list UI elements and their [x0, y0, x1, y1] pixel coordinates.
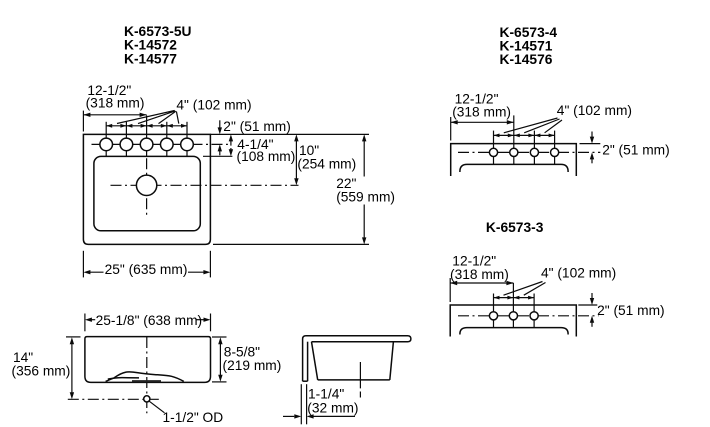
- basin back wall: [390, 342, 394, 380]
- top edge extension line: [210, 133, 369, 135]
- faucet hole stem 3: [533, 294, 535, 329]
- faucet hole stem 5: [186, 122, 188, 157]
- dim 4in gaps line: [494, 297, 535, 299]
- faucet hole stem 2: [513, 115, 515, 164]
- faucet hole 2: [120, 138, 133, 151]
- faucet hole centerline: [458, 151, 600, 153]
- svg-text:25-1/8" (638 mm): 25-1/8" (638 mm): [96, 313, 203, 328]
- svg-text:(32 mm): (32 mm): [307, 401, 358, 416]
- dim 8-5/8 line: [219, 340, 221, 379]
- faucet hole 4: [161, 138, 174, 151]
- drain hole: [136, 175, 156, 195]
- dim 12-1/2 line: [450, 282, 513, 284]
- dim 14in top tick: [66, 336, 81, 338]
- faucet hole stem 4: [166, 122, 168, 157]
- drain mound contour: [106, 372, 184, 382]
- dim 8-5/8 top tick: [212, 336, 227, 338]
- faucet hole stem 1: [105, 122, 107, 157]
- svg-text:(219 mm): (219 mm): [223, 358, 282, 373]
- faucet hole stem 1: [493, 294, 495, 329]
- dim 2in arrow lower: [219, 147, 221, 155]
- faucet hole stem 1: [493, 131, 495, 165]
- dim 2in arrow lower: [591, 319, 593, 327]
- drain mound crease: [108, 378, 139, 380]
- basin front wall: [312, 342, 318, 380]
- svg-text:(254 mm): (254 mm): [297, 156, 356, 171]
- basin inner rect: [94, 156, 200, 230]
- svg-text:K-14576: K-14576: [500, 52, 553, 67]
- top edge extension right: [578, 304, 597, 306]
- dim 2in arrow lower: [591, 155, 593, 163]
- apron inner face: [307, 342, 309, 382]
- outlet centerline horizontal: [68, 398, 162, 400]
- svg-text:K-14577: K-14577: [124, 52, 177, 67]
- faucet hole 1: [489, 312, 497, 320]
- sink top edge: [450, 305, 576, 337]
- svg-text:8-5/8": 8-5/8": [224, 344, 260, 359]
- dim 8-5/8 bottom tick: [212, 381, 227, 383]
- dim 12-1/2 extension left: [82, 111, 84, 132]
- svg-text:2" (51 mm): 2" (51 mm): [597, 303, 665, 318]
- dim 4in gaps line: [494, 134, 555, 136]
- svg-text:K-14572: K-14572: [124, 38, 177, 53]
- dim 25in extension left: [82, 251, 84, 278]
- svg-text:(108 mm): (108 mm): [237, 149, 296, 164]
- faucet hole 2: [509, 312, 517, 320]
- dim 1-1/4 arrow left: [283, 415, 294, 417]
- drain centerline: [359, 362, 361, 398]
- faucet hole 3: [530, 148, 538, 156]
- faucet hole stem 3: [533, 131, 535, 165]
- dim 1-1/4 extension right: [306, 384, 308, 424]
- bottom edge extension line: [213, 243, 369, 245]
- svg-text:1-1/2" OD: 1-1/2" OD: [163, 410, 224, 425]
- dim 25in line left: [86, 271, 103, 273]
- svg-text:K-6573-3: K-6573-3: [486, 220, 544, 235]
- faucet hole stem 2: [125, 122, 127, 157]
- faucet hole 3: [530, 312, 538, 320]
- svg-text:2" (51 mm): 2" (51 mm): [602, 143, 670, 158]
- faucet hole stem 4: [554, 131, 556, 165]
- basin rim partial: [460, 164, 568, 172]
- sink top edge: [451, 144, 577, 176]
- dim 12-1/2 extension left: [450, 117, 452, 141]
- svg-text:25" (635 mm): 25" (635 mm): [105, 262, 188, 277]
- dim 1-1/4 extension left: [300, 384, 302, 424]
- faucet hole 5: [181, 138, 194, 151]
- drain centerline vertical: [146, 337, 148, 413]
- dim 22in line lower: [363, 205, 365, 242]
- dim 25-1/8 line right: [196, 319, 207, 321]
- faucet hole stem 3: [146, 115, 148, 156]
- dim 2in arrow upper: [591, 132, 593, 141]
- svg-text:4" (102 mm): 4" (102 mm): [541, 266, 616, 281]
- dim 25-1/8 extension left: [84, 314, 86, 332]
- svg-text:(318 mm): (318 mm): [452, 105, 511, 120]
- dim 25in extension right: [209, 251, 211, 278]
- dim 4in leader lines: [504, 282, 546, 296]
- drain outlet circle: [144, 396, 150, 402]
- sink outer rim rect: [83, 134, 210, 244]
- dim 12-1/2 line: [83, 114, 146, 116]
- faucet hole 1: [489, 148, 497, 156]
- faucet hole 3: [140, 138, 153, 151]
- faucet hole stem 2: [512, 283, 514, 328]
- dim 14in line: [71, 340, 73, 396]
- dim 4-1/4 line: [230, 137, 232, 153]
- basin rim partial: [460, 328, 568, 335]
- dim 4in leader lines: [504, 118, 562, 133]
- svg-text:(559 mm): (559 mm): [336, 189, 395, 204]
- svg-text:(318 mm): (318 mm): [450, 267, 509, 282]
- dim 4in gaps line: [106, 125, 187, 127]
- svg-text:(318 mm): (318 mm): [86, 96, 145, 111]
- drain bottom line: [132, 380, 161, 382]
- apron bottom: [303, 380, 308, 382]
- dim 2in arrow upper: [219, 120, 221, 131]
- dim 1-1/4 arrow right: [313, 415, 355, 417]
- svg-text:2" (51 mm): 2" (51 mm): [223, 119, 291, 134]
- svg-text:(356 mm): (356 mm): [12, 364, 71, 379]
- dim 4in leader lines: [117, 111, 179, 124]
- dim 25-1/8 line left: [88, 319, 95, 321]
- apron and rim outline: [303, 336, 411, 382]
- top edge extension right: [580, 143, 601, 145]
- dim 22in line upper: [363, 137, 365, 176]
- dim 12-1/2 line: [451, 121, 514, 123]
- dim 10in line: [295, 137, 297, 182]
- faucet hole 2: [510, 148, 518, 156]
- dim 12-1/2 extension left: [449, 278, 451, 302]
- svg-text:4" (102 mm): 4" (102 mm): [557, 103, 632, 118]
- dim 2in arrow upper: [591, 293, 593, 302]
- drain centerline vertical: [146, 158, 148, 216]
- faucet hole centerline: [458, 315, 599, 317]
- faucet hole 1: [100, 138, 113, 151]
- faucet hole 4: [551, 148, 559, 156]
- svg-text:1-1/4": 1-1/4": [308, 387, 344, 402]
- front outline: [85, 337, 211, 383]
- basin bottom: [318, 379, 390, 381]
- drain centerline horizontal: [111, 184, 299, 186]
- basin rim extension line: [203, 155, 232, 157]
- dim 25-1/8 extension right: [210, 314, 212, 332]
- faucet hole centerline: [92, 143, 228, 145]
- svg-text:4" (102 mm): 4" (102 mm): [176, 97, 251, 112]
- dim 25in line right: [188, 271, 207, 273]
- outlet leader line: [149, 401, 164, 413]
